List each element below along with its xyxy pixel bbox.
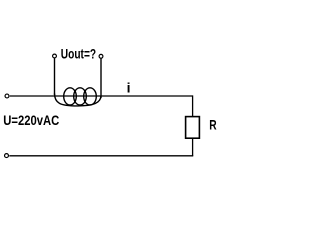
wire: right vertical upper segment: [192, 95, 194, 117]
wire: top horizontal: [10, 95, 193, 97]
terminal: AC source bottom-left: [5, 154, 9, 158]
terminal: Uout right: [99, 54, 103, 58]
wire: right vertical lower segment: [192, 138, 194, 156]
terminal: AC source top-left: [5, 94, 9, 98]
inductor L1: right lead wire: [100, 58, 102, 98]
inductor L1: bottom arc connecting leads: [55, 94, 102, 106]
svg-text:U=220vAC: U=220vAC: [3, 112, 59, 128]
wire: bottom horizontal: [9, 155, 193, 157]
inductor L1: coil turn 3: [84, 88, 97, 105]
svg-text:R: R: [209, 117, 216, 133]
svg-text:i: i: [127, 80, 131, 96]
inductor L1: left lead wire: [54, 58, 56, 95]
inductor L1: coil turn 2: [74, 88, 87, 105]
resistor R: [186, 117, 200, 139]
terminal: Uout left: [53, 54, 57, 58]
inductor L1: coil turn 1: [64, 88, 77, 105]
svg-text:Uout=?: Uout=?: [61, 46, 96, 62]
